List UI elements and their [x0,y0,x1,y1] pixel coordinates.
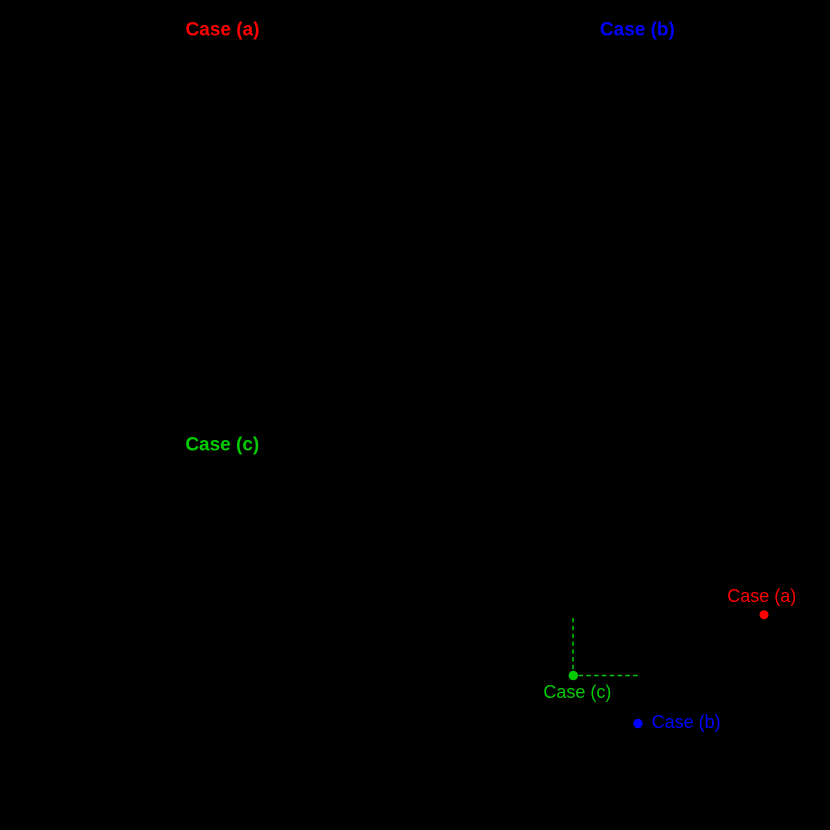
data point blue Case (b) [633,719,642,728]
data point green Case (c) [569,671,578,680]
svg-text:Case (c): Case (c) [543,682,611,702]
dashed drop line horizontal [579,675,639,677]
data point red Case (a) [760,610,769,619]
svg-text:Case (c): Case (c) [185,434,259,455]
svg-text:Case (b): Case (b) [652,712,721,732]
svg-text:Case (a): Case (a) [727,586,796,606]
dashed drop line vertical [572,618,574,671]
svg-text:Case (b): Case (b) [600,19,675,40]
svg-text:Case (a): Case (a) [186,19,260,40]
